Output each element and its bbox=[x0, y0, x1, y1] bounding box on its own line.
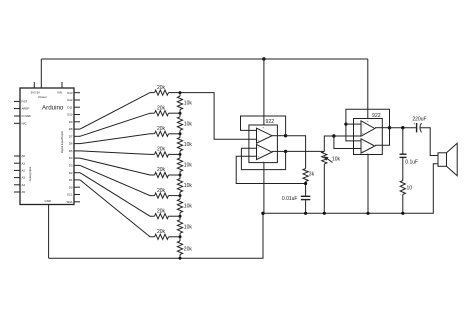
svg-text:D2: D2 bbox=[69, 171, 73, 175]
ground rail lower bbox=[49, 213, 263, 258]
resistor R2R-1 10k bbox=[177, 96, 182, 109]
node filter junction bbox=[304, 182, 307, 185]
node ladder N2 bbox=[179, 112, 182, 115]
resistor R2R-6 10k bbox=[177, 199, 182, 212]
svg-text:AREF: AREF bbox=[22, 107, 30, 111]
svg-text:3V3 5V: 3V3 5V bbox=[31, 90, 41, 94]
node U2B output bbox=[284, 150, 287, 153]
svg-text:+: + bbox=[362, 131, 364, 135]
svg-text:20k: 20k bbox=[157, 167, 166, 173]
capacitor 0.01uF bbox=[301, 195, 310, 197]
wire pot bottom to ground bbox=[323, 164, 325, 213]
node +5V junction bbox=[262, 57, 265, 60]
resistor Rterm 20k bbox=[177, 241, 182, 255]
svg-text:10k: 10k bbox=[184, 101, 193, 107]
node ladder N6 bbox=[179, 194, 182, 197]
wire ladder segment bbox=[179, 151, 181, 155]
svg-text:D11: D11 bbox=[67, 105, 72, 109]
resistor R8 20k bbox=[155, 234, 169, 239]
resistor R2R-3 10k bbox=[177, 137, 182, 150]
pin 3V3 stub bbox=[33, 82, 35, 88]
svg-text:−: − bbox=[258, 146, 260, 150]
svg-text:220uF: 220uF bbox=[412, 116, 426, 122]
svg-text:+: + bbox=[258, 138, 260, 142]
wire ladder segment bbox=[179, 154, 181, 158]
node pot-ground bbox=[323, 212, 326, 215]
op-amp U2 body bbox=[249, 125, 278, 163]
wire 5V pin to +V rail bbox=[40, 59, 42, 88]
svg-text:20k: 20k bbox=[184, 246, 193, 252]
svg-text:−: − bbox=[362, 140, 364, 144]
wire terminator to ground rail bbox=[179, 255, 181, 259]
wire ladder segment bbox=[179, 175, 181, 179]
wire Arduino pin to R3 bbox=[80, 134, 155, 144]
wire Arduino pin to R7 bbox=[80, 173, 155, 217]
svg-text:0.1uF: 0.1uF bbox=[405, 160, 418, 166]
wire Arduino pin to R4 bbox=[80, 151, 155, 155]
node ladder N3 bbox=[179, 132, 182, 135]
wire R4 to ladder node bbox=[169, 153, 181, 155]
svg-text:10k: 10k bbox=[184, 183, 193, 189]
op-amp U3B triangle bbox=[361, 139, 375, 153]
potentiometer 10k body bbox=[322, 151, 327, 164]
svg-text:−: − bbox=[262, 159, 264, 163]
wire R1 to ladder node bbox=[169, 92, 181, 94]
wire U2A output to R 3k bbox=[286, 136, 306, 169]
svg-text:20k: 20k bbox=[157, 105, 166, 111]
resistor R2R-2 10k bbox=[177, 117, 182, 130]
op-amp U3 body bbox=[354, 119, 383, 155]
svg-text:A5: A5 bbox=[22, 190, 26, 194]
svg-text:D0: D0 bbox=[69, 185, 73, 189]
svg-text:10k: 10k bbox=[184, 142, 193, 148]
resistor R2R-4 10k bbox=[177, 158, 182, 171]
svg-text:D5: D5 bbox=[69, 149, 73, 153]
wire branch to C 0.1uF bbox=[402, 128, 404, 155]
wire U2 ground pin bbox=[263, 163, 265, 214]
wire 220uF to speaker bbox=[420, 128, 438, 156]
node R10-ground bbox=[401, 212, 404, 215]
svg-text:VIN: VIN bbox=[57, 90, 62, 94]
resistor R1 20k bbox=[155, 90, 169, 95]
svg-text:10k: 10k bbox=[184, 163, 193, 169]
svg-text:Digital Input/Output: Digital Input/Output bbox=[60, 131, 64, 153]
svg-text:A3: A3 bbox=[22, 176, 26, 180]
svg-text:A4: A4 bbox=[22, 183, 26, 187]
node ladder N4 bbox=[179, 153, 182, 156]
Arduino right digital pins D13-SDA bbox=[67, 91, 80, 204]
svg-text:D1: D1 bbox=[69, 178, 73, 182]
svg-text:10k: 10k bbox=[184, 204, 193, 210]
wire ladder segment bbox=[179, 196, 181, 200]
svg-text:IO REF: IO REF bbox=[22, 114, 32, 118]
wire R3 to ladder node bbox=[169, 133, 181, 135]
+5V power rail bbox=[41, 58, 368, 60]
svg-text:+: + bbox=[413, 122, 415, 126]
wire ladder segment bbox=[179, 93, 181, 97]
resistor R6 20k bbox=[155, 193, 169, 198]
svg-text:D12: D12 bbox=[67, 98, 73, 102]
svg-text:3k: 3k bbox=[309, 172, 315, 178]
wire Arduino GND down bbox=[48, 205, 50, 259]
node ground rail left junction bbox=[261, 212, 264, 215]
svg-text:−: − bbox=[367, 151, 369, 155]
wire U3 output to C 220uF bbox=[390, 127, 417, 129]
wire 3k to node bbox=[305, 182, 307, 197]
wire U3B output loop bbox=[375, 128, 390, 146]
node ladder N5 bbox=[179, 174, 182, 177]
svg-text:−: − bbox=[362, 122, 364, 126]
capacitor 220uF bbox=[416, 123, 418, 132]
wire U3A - input bbox=[346, 123, 361, 125]
svg-text:10k: 10k bbox=[332, 156, 341, 162]
svg-text:20k: 20k bbox=[157, 208, 166, 214]
wire ladder segment bbox=[179, 134, 181, 138]
ground rail upper bbox=[263, 164, 438, 214]
svg-text:SDA: SDA bbox=[67, 200, 73, 204]
svg-text:0.01uF: 0.01uF bbox=[282, 196, 298, 202]
potentiometer wiper arrow bbox=[327, 158, 333, 162]
svg-text:Power: Power bbox=[39, 95, 47, 99]
node U2A output bbox=[284, 134, 287, 137]
svg-text:D6: D6 bbox=[69, 142, 73, 146]
svg-text:A2: A2 bbox=[22, 169, 26, 173]
svg-text:D7: D7 bbox=[69, 134, 73, 138]
node ladder N7 bbox=[179, 215, 182, 218]
svg-text:+: + bbox=[367, 119, 369, 123]
wire Arduino pin to R8 bbox=[80, 180, 155, 237]
op-amp U2A triangle bbox=[257, 128, 273, 143]
node signal to U3 bbox=[332, 134, 335, 137]
op-amp U3A triangle bbox=[361, 121, 375, 136]
wire U2B output to pot bbox=[286, 150, 325, 152]
node U3 output bbox=[388, 126, 391, 129]
svg-text:Analog Input: Analog Input bbox=[28, 166, 32, 181]
op-amp U2B triangle bbox=[257, 145, 273, 160]
wire ladder bottom to terminator bbox=[179, 237, 181, 241]
svg-text:GND: GND bbox=[45, 199, 51, 203]
wire ladder segment bbox=[179, 192, 181, 196]
wire R 10 to ground bbox=[402, 195, 404, 214]
pin VIN stub bbox=[61, 82, 63, 88]
resistor R2R-5 10k bbox=[177, 179, 182, 192]
resistor 3k bbox=[303, 169, 308, 182]
wire U2B output bbox=[272, 150, 286, 152]
svg-text:+: + bbox=[362, 149, 364, 153]
wire U2B feedback loop bbox=[241, 148, 285, 169]
Arduino U1 bbox=[20, 88, 74, 205]
wire U2B + input to filter node bbox=[236, 156, 305, 183]
wire R7 to ladder node bbox=[169, 215, 181, 217]
svg-text:+: + bbox=[262, 126, 264, 130]
wire U2A output bbox=[272, 135, 286, 137]
wire R5 to ladder node bbox=[169, 174, 181, 176]
node ladder N1 bbox=[179, 91, 182, 94]
resistor R7 20k bbox=[155, 214, 169, 219]
svg-text:922: 922 bbox=[372, 113, 381, 119]
svg-text:D10: D10 bbox=[67, 113, 73, 117]
node ladder N8 bbox=[179, 235, 182, 238]
svg-text:−: − bbox=[258, 129, 260, 133]
wire Arduino pin to R2 bbox=[80, 113, 155, 136]
wire U2A feedback loop bbox=[241, 116, 286, 136]
wire ladder segment bbox=[179, 110, 181, 114]
wire R6 to ladder node bbox=[169, 195, 181, 197]
svg-text:+: + bbox=[258, 155, 260, 159]
svg-text:Arduino: Arduino bbox=[42, 105, 64, 112]
wire signal to U3B + input bbox=[334, 136, 361, 149]
svg-text:10k: 10k bbox=[184, 121, 193, 127]
node output branch bbox=[401, 126, 404, 129]
svg-text:20k: 20k bbox=[157, 126, 166, 132]
svg-text:N/C: N/C bbox=[22, 121, 27, 125]
wire ladder segment bbox=[179, 213, 181, 217]
wire ladder segment bbox=[179, 113, 181, 117]
node U3 ground bbox=[366, 212, 369, 215]
svg-text:A1: A1 bbox=[22, 161, 26, 165]
wire pot top to signal node bbox=[324, 136, 334, 151]
wire Arduino pin to R6 bbox=[80, 165, 155, 195]
wire signal to U3A + input bbox=[334, 135, 361, 137]
wire ladder output to U2 input bbox=[180, 93, 257, 140]
resistor R2 20k bbox=[155, 111, 169, 116]
wire ladder segment bbox=[179, 216, 181, 220]
wire ladder segment bbox=[179, 130, 181, 134]
svg-text:D9: D9 bbox=[69, 120, 73, 124]
wire ladder segment bbox=[179, 171, 181, 175]
svg-text:A0: A0 bbox=[22, 154, 26, 158]
wire U3 ground pin bbox=[367, 155, 369, 214]
wire ladder segment bbox=[179, 233, 181, 237]
wire U3A output bbox=[375, 127, 390, 129]
node U3 feedback junction bbox=[344, 123, 347, 126]
svg-text:20k: 20k bbox=[157, 147, 166, 153]
wire +5V to U3 V+ pin bbox=[367, 59, 369, 119]
svg-text:10: 10 bbox=[407, 186, 413, 192]
wire Arduino pin to R1 bbox=[80, 93, 155, 130]
svg-text:20k: 20k bbox=[157, 85, 166, 91]
resistor R5 20k bbox=[155, 172, 169, 177]
resistor R4 20k bbox=[155, 152, 169, 157]
svg-text:RST: RST bbox=[22, 100, 28, 104]
node terminator-ground bbox=[179, 257, 182, 260]
resistor R3 20k bbox=[155, 131, 169, 136]
svg-text:D4: D4 bbox=[69, 156, 73, 160]
svg-text:922: 922 bbox=[266, 119, 275, 125]
svg-text:D13: D13 bbox=[67, 91, 73, 95]
capacitor 0.1uF bbox=[400, 153, 407, 155]
svg-text:SCL: SCL bbox=[67, 193, 73, 197]
wire R2 to ladder node bbox=[169, 112, 181, 114]
wire 0.1uF to R 10 bbox=[402, 157, 404, 180]
wire 0.01uF to ground bbox=[305, 200, 307, 214]
wire Arduino pin to R5 bbox=[80, 158, 155, 175]
wire U3 feedback loop top bbox=[346, 109, 390, 141]
wire +5V to U2 V+ pin bbox=[263, 59, 265, 125]
svg-text:D3: D3 bbox=[69, 164, 73, 168]
speaker LS1 bbox=[438, 143, 457, 176]
resistor R2R-7 10k bbox=[177, 220, 182, 233]
node 0.01uF-ground bbox=[304, 212, 307, 215]
svg-text:20k: 20k bbox=[157, 188, 166, 194]
Arduino left pins RST AREF IOREF NC A0-A5 bbox=[14, 100, 31, 195]
svg-text:D8: D8 bbox=[69, 127, 73, 131]
resistor 10 bbox=[400, 181, 405, 195]
svg-text:10k: 10k bbox=[184, 224, 193, 230]
svg-text:20k: 20k bbox=[157, 229, 166, 235]
wire R8 to ladder node bbox=[169, 236, 181, 238]
